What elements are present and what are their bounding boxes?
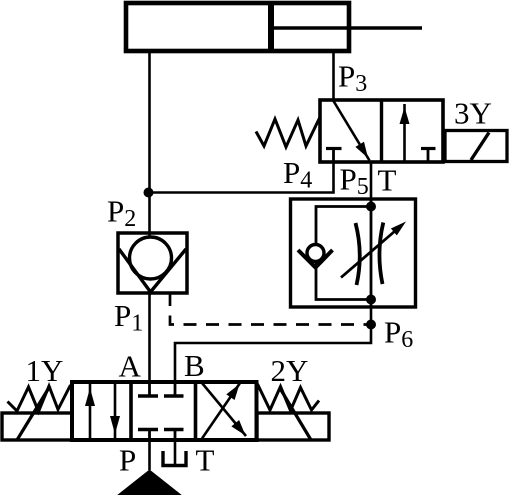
flow control unit enclosure bbox=[291, 199, 416, 307]
pressure source triangle bbox=[116, 470, 183, 495]
valve V1 left position diagonal arrow bbox=[334, 101, 370, 161]
valve V1 right position blocked port symbol bbox=[421, 147, 436, 150]
svg-text:P4: P4 bbox=[283, 155, 312, 194]
wire: flow control down to P6 and across to valve B port bbox=[175, 307, 371, 382]
wire: check valve to directional valve A port bbox=[148, 293, 151, 382]
centre position blocked port T bbox=[174, 430, 177, 440]
svg-text:A: A bbox=[119, 349, 142, 384]
solenoid 3Y bbox=[445, 131, 507, 162]
wire: T port to tank bbox=[174, 440, 177, 464]
spring right end bbox=[258, 384, 320, 411]
valve V1 left position blocked port symbol bbox=[326, 147, 342, 150]
wire: cylinder left port down to junction and check valve P2 bbox=[148, 51, 151, 238]
check valve ball bbox=[130, 237, 172, 279]
wire: valve V1 bottom-right port down to flow control unit bbox=[370, 162, 373, 199]
tank symbol bbox=[163, 451, 186, 466]
pilot operated check valve body bbox=[118, 233, 187, 293]
wire: cylinder right port down to 3/2 valve (P3) bbox=[332, 51, 335, 100]
valve V1 body (3/2 pilot valve) bbox=[320, 100, 443, 162]
right position crossed arrow 1 bbox=[202, 383, 240, 439]
spring left end bbox=[8, 385, 71, 412]
svg-text:P1: P1 bbox=[114, 298, 143, 337]
wire: main line through flow control bbox=[370, 199, 373, 307]
solenoid 2Y box bbox=[257, 413, 329, 440]
junction dot bbox=[144, 188, 154, 198]
junction dot top bbox=[366, 202, 376, 212]
centre position blocked port B bbox=[174, 383, 177, 396]
svg-text:2Y: 2Y bbox=[271, 353, 309, 388]
check valve in flow control bbox=[307, 245, 324, 262]
svg-text:P6: P6 bbox=[384, 315, 413, 354]
svg-text:3Y: 3Y bbox=[454, 96, 492, 131]
svg-text:T: T bbox=[378, 163, 397, 198]
junction dot bottom bbox=[366, 295, 376, 305]
solenoid 1Y box bbox=[2, 413, 72, 440]
throttle adjustment arrow bbox=[341, 225, 402, 278]
svg-text:1Y: 1Y bbox=[26, 353, 64, 388]
left position up arrow bbox=[89, 384, 92, 438]
cylinder piston bbox=[268, 3, 274, 51]
left position down arrow bbox=[114, 384, 117, 438]
directional valve body (4/3) bbox=[72, 382, 257, 440]
check valve seat bbox=[119, 249, 186, 292]
pilot dashed line from check valve to P6 bbox=[170, 293, 371, 325]
cylinder rod bbox=[271, 26, 422, 30]
wire: P port to pressure source bbox=[148, 440, 151, 470]
valve V1 right position up arrow bbox=[403, 104, 406, 162]
spring of valve V1 bbox=[256, 117, 320, 147]
svg-text:B: B bbox=[184, 348, 205, 383]
svg-text:P: P bbox=[119, 443, 136, 478]
centre position blocked port P bbox=[148, 430, 151, 440]
cylinder body bbox=[126, 3, 349, 51]
wire: bypass branch with check valve bbox=[316, 207, 371, 300]
wire: valve V1 bottom-left port down then left to junction bbox=[149, 162, 334, 193]
svg-text:P5: P5 bbox=[340, 162, 369, 201]
right position crossed arrow 2 bbox=[202, 383, 246, 436]
svg-text:P2: P2 bbox=[107, 194, 136, 233]
throttle valve arcs bbox=[356, 223, 360, 285]
centre position blocked port A bbox=[148, 383, 151, 396]
svg-text:T: T bbox=[196, 443, 215, 478]
node P6 dot bbox=[366, 320, 376, 330]
svg-text:P3: P3 bbox=[338, 59, 367, 98]
